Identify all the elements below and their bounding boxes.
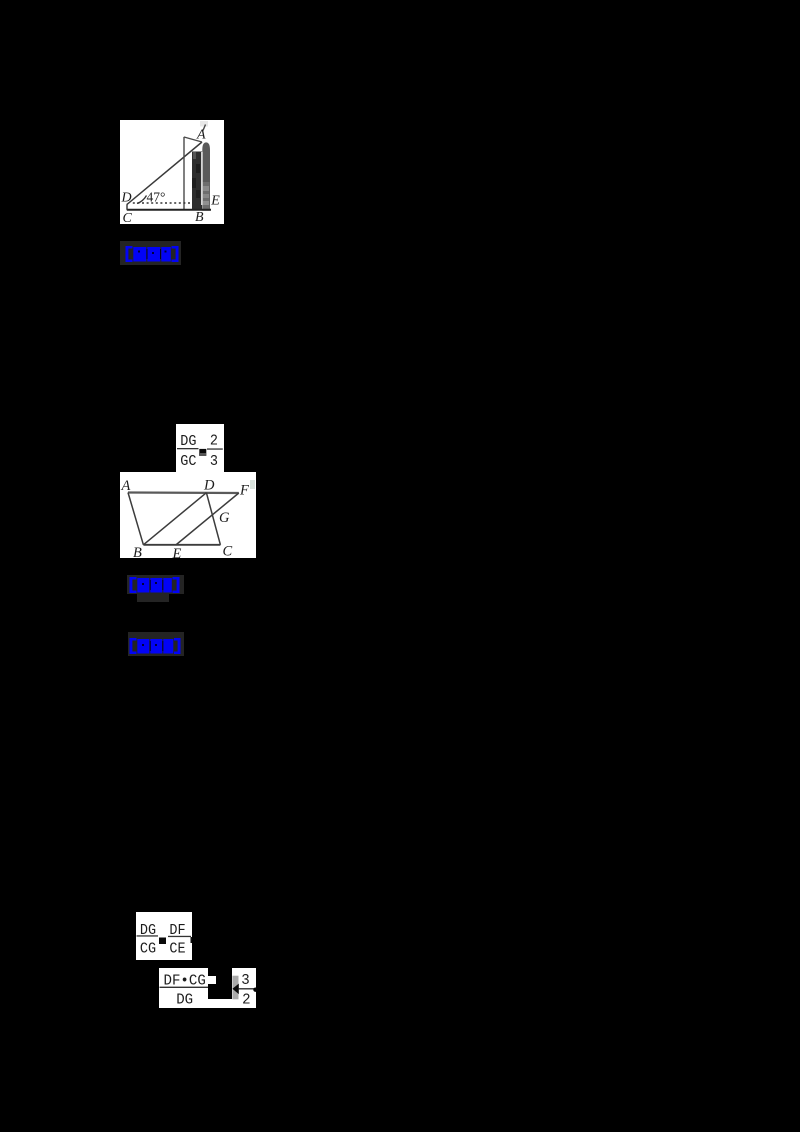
svg-text:B: B (133, 545, 142, 558)
svg-text:E: E (172, 546, 182, 558)
svg-text:47°: 47° (147, 190, 166, 205)
svg-text:A: A (196, 128, 206, 143)
svg-text:DG: DG (180, 433, 196, 450)
svg-text:D: D (203, 478, 215, 494)
svg-text:3: 3 (241, 972, 249, 988)
svg-text:DG: DG (140, 922, 156, 939)
svg-text:CE: CE (169, 941, 185, 958)
svg-text:G: G (219, 510, 230, 526)
svg-text:C: C (123, 211, 133, 224)
svg-text:E: E (210, 194, 220, 209)
svg-text:CG: CG (140, 941, 156, 958)
svg-text:DG: DG (176, 992, 193, 1008)
svg-text:GC: GC (180, 453, 196, 470)
svg-text:2: 2 (242, 992, 250, 1008)
svg-text:C: C (223, 544, 233, 559)
svg-text:D: D (121, 191, 132, 206)
svg-text:A: A (121, 478, 131, 494)
svg-text:B: B (195, 210, 204, 224)
svg-text:3: 3 (210, 453, 218, 470)
svg-text:2: 2 (210, 433, 218, 450)
svg-text:F: F (239, 483, 249, 499)
